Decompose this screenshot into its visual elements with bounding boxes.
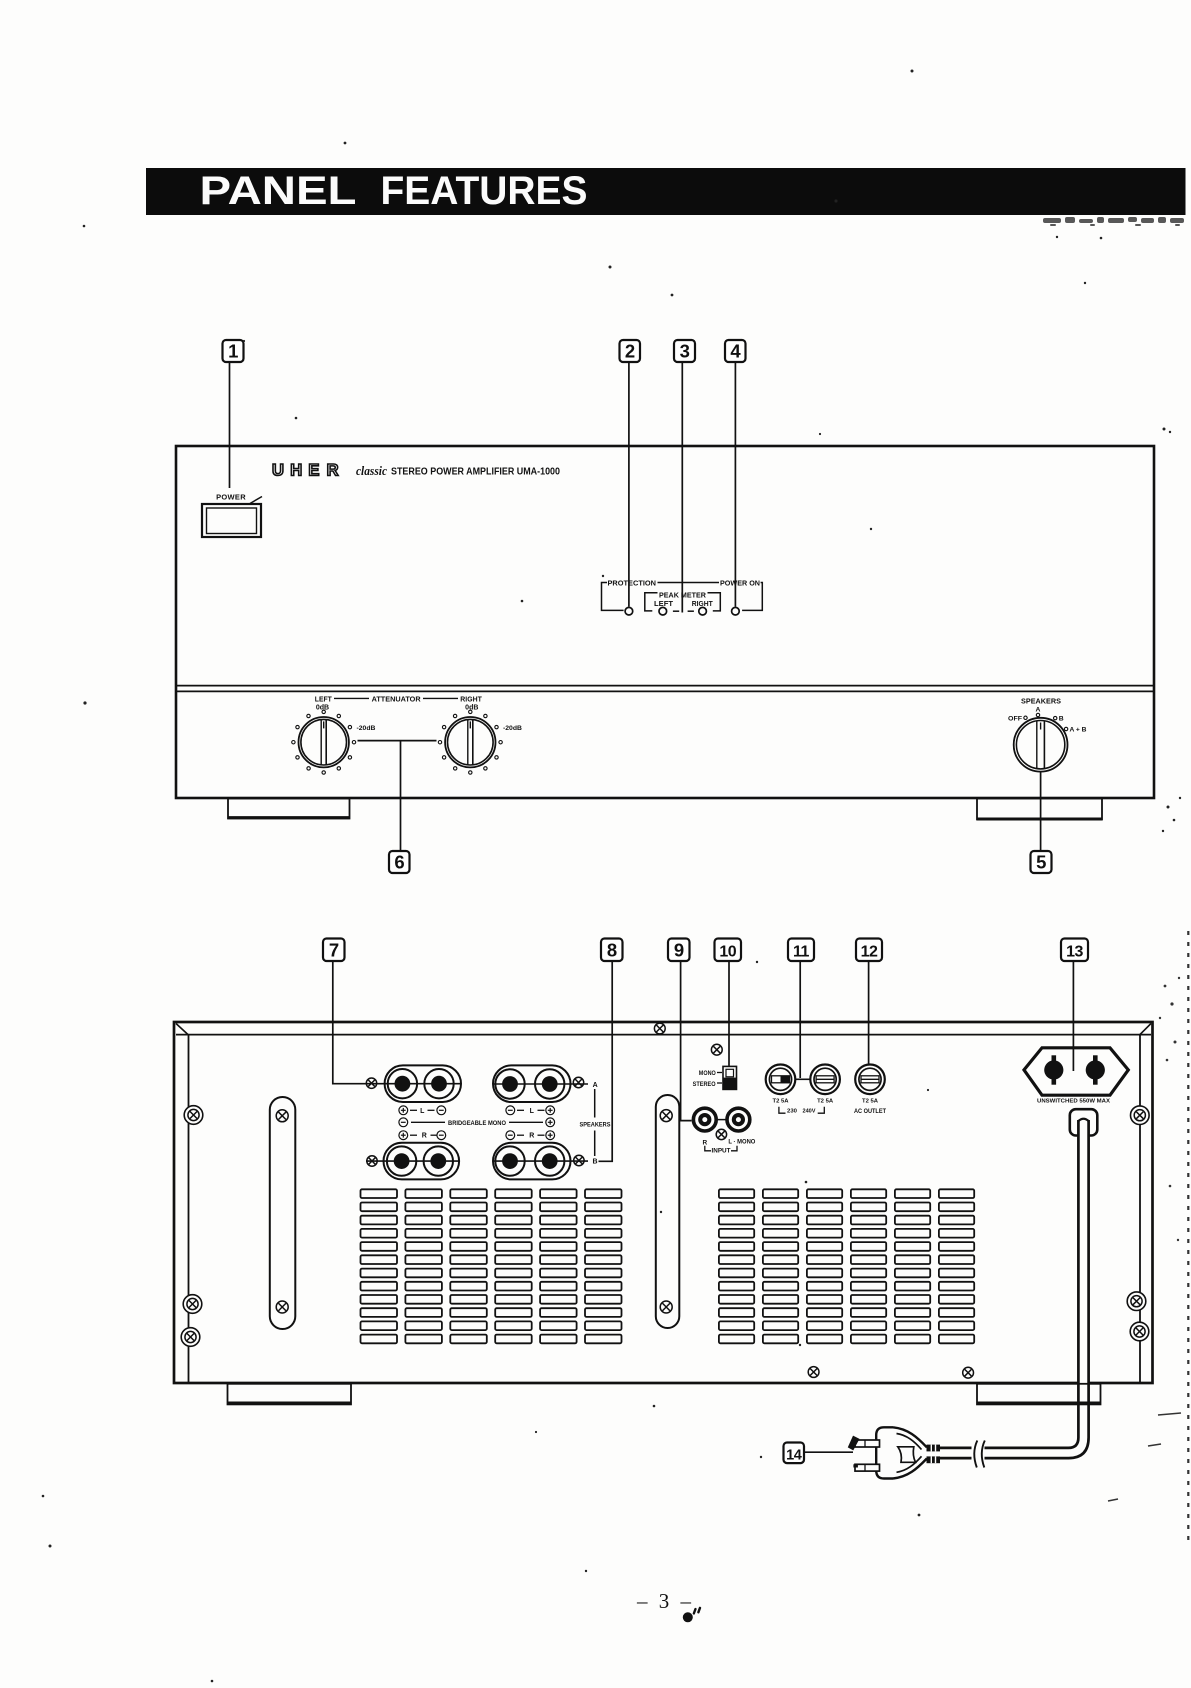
middle handle slot	[656, 1095, 680, 1328]
svg-text:L · MONO: L · MONO	[728, 1139, 755, 1146]
callout line 12	[868, 961, 870, 1064]
right vent grille (6x12 slots)	[719, 1189, 974, 1343]
terminal post B-R-	[495, 1146, 524, 1175]
svg-text:BRIDGEABLE MONO: BRIDGEABLE MONO	[448, 1121, 506, 1127]
left handle screw bottom	[276, 1301, 288, 1313]
terminal screw B left	[367, 1156, 377, 1166]
callout line 6	[400, 741, 402, 851]
terminal group A left stadium	[385, 1065, 461, 1102]
svg-text:UNSWITCHED 550W MAX: UNSWITCHED 550W MAX	[1037, 1099, 1110, 1105]
cord grommet	[1070, 1109, 1098, 1135]
callout line 13	[1072, 961, 1074, 1071]
callout line 14	[804, 1451, 853, 1453]
svg-text:R: R	[529, 1133, 534, 1140]
callout line 8	[599, 961, 613, 1161]
protection bracket	[602, 583, 624, 611]
svg-text:B: B	[592, 1159, 597, 1166]
svg-text:STEREO POWER AMPLIFIER UMA-100: STEREO POWER AMPLIFIER UMA-1000	[391, 467, 560, 478]
svg-text:7: 7	[329, 939, 339, 960]
attenuator knob RIGHT	[445, 717, 495, 767]
svg-text:LEFT: LEFT	[315, 694, 332, 703]
speakers bracket line lower	[594, 1131, 596, 1157]
rear bottom screw left	[808, 1367, 819, 1378]
front left foot	[228, 799, 350, 819]
svg-text:T2 5A: T2 5A	[862, 1099, 878, 1105]
protection LED	[625, 607, 633, 615]
terminal screw B right	[574, 1155, 584, 1165]
rear top-left corner bevel	[176, 1024, 189, 1036]
mono/stereo slide switch	[723, 1066, 737, 1089]
terminal screw A left	[366, 1078, 376, 1088]
power cord top cap	[1078, 1119, 1088, 1121]
RCA jack L	[727, 1108, 750, 1131]
fuse F1-F2 connector line	[796, 1078, 811, 1080]
svg-text:10: 10	[719, 943, 736, 960]
svg-text:H: H	[290, 462, 302, 480]
AC inlet receptacle	[1024, 1048, 1128, 1095]
callout line 11	[799, 961, 801, 1078]
callout box 9	[668, 939, 690, 962]
svg-text:3: 3	[680, 341, 690, 362]
callout box 13	[1061, 939, 1088, 962]
svg-text:FEATURES: FEATURES	[381, 169, 588, 213]
INPUT bracket	[705, 1146, 737, 1151]
callout line 2	[628, 362, 630, 607]
svg-text:SPEAKERS: SPEAKERS	[580, 1122, 611, 1128]
left flange screw lower	[181, 1328, 200, 1347]
rear panel outline	[174, 1022, 1153, 1383]
svg-text:A: A	[1036, 706, 1041, 713]
plug strain relief upper	[927, 1445, 941, 1452]
A+B dot	[1064, 727, 1067, 730]
svg-text:5: 5	[1036, 852, 1046, 873]
terminal post A-R-	[495, 1069, 524, 1098]
svg-text:A + B: A + B	[1070, 727, 1087, 734]
RCA jack R	[693, 1108, 716, 1131]
B dot	[1054, 716, 1057, 719]
title bar	[146, 168, 1186, 215]
right margin dash noise	[1108, 1413, 1181, 1501]
svg-text:8: 8	[607, 939, 617, 960]
svg-text:4: 4	[730, 341, 741, 362]
rear inner left line	[188, 1035, 190, 1382]
peak meter left LED	[659, 607, 667, 615]
svg-text:14: 14	[786, 1448, 802, 1464]
speakers selector knob	[1014, 718, 1068, 772]
right knob tick dots	[438, 710, 502, 774]
front panel divider lines	[176, 686, 1154, 692]
rear top-right corner bevel	[1139, 1024, 1151, 1036]
svg-text:B: B	[1059, 716, 1064, 723]
svg-text:230: 230	[787, 1109, 797, 1115]
svg-text:RIGHT: RIGHT	[460, 694, 482, 703]
terminal post A-R+	[535, 1069, 564, 1098]
callout line 1	[229, 362, 231, 488]
terminal post B-L-	[424, 1146, 453, 1175]
terminal B row midline	[366, 1160, 588, 1162]
svg-text:A: A	[593, 1082, 598, 1089]
right flange screw upper	[1131, 1106, 1150, 1125]
middle handle screw top	[660, 1110, 672, 1122]
callout line 9	[681, 961, 692, 1121]
svg-text:– 3 –: – 3 –	[636, 1589, 694, 1613]
rear inner top line	[176, 1034, 1151, 1036]
left handle slot	[270, 1097, 296, 1329]
LED row dashes	[673, 610, 694, 612]
callout box 11	[788, 939, 814, 962]
svg-text:13: 13	[1066, 943, 1083, 960]
front panel outline	[176, 446, 1154, 798]
svg-text:MONO: MONO	[699, 1070, 716, 1077]
polarity row 2 left	[399, 1131, 446, 1140]
UHER logo	[272, 462, 339, 480]
terminal post B-L+	[387, 1146, 416, 1175]
AC inlet pin right	[1086, 1055, 1105, 1084]
callout box 6	[389, 851, 410, 873]
svg-text:11: 11	[793, 943, 810, 960]
terminal screw A right	[573, 1077, 583, 1087]
svg-text:classic: classic	[356, 463, 387, 478]
callout box 7	[323, 939, 345, 962]
power-on bracket	[742, 583, 762, 611]
svg-text:1: 1	[228, 341, 238, 362]
OFF dot	[1024, 716, 1027, 719]
callout box 8	[601, 939, 623, 962]
rear top strip screw	[654, 1023, 665, 1034]
screw above mono switch	[711, 1044, 722, 1055]
callout box 3	[674, 340, 695, 362]
svg-text:PANEL: PANEL	[200, 169, 357, 213]
callout line 3	[681, 362, 683, 613]
peak meter right LED	[699, 607, 707, 615]
fuse F2 (240V)	[810, 1065, 840, 1095]
svg-text:-20dB: -20dB	[357, 725, 376, 732]
svg-text:STEREO: STEREO	[693, 1081, 716, 1088]
right flange screw mid	[1127, 1292, 1146, 1311]
svg-text:6: 6	[394, 852, 404, 873]
svg-text:PROTECTION: PROTECTION	[608, 580, 657, 587]
voltage selector bracket	[779, 1107, 824, 1114]
rear right foot	[977, 1384, 1101, 1405]
callout line 7	[333, 961, 366, 1084]
svg-text:240V: 240V	[803, 1109, 816, 1115]
speakers bracket line upper	[594, 1089, 596, 1118]
callout line 5	[1040, 771, 1042, 851]
screw between jacks	[716, 1129, 726, 1139]
svg-text:2: 2	[625, 341, 635, 362]
bridgeable mono row	[399, 1118, 555, 1127]
title text PANEL FEATURES	[200, 169, 588, 213]
jack connector line	[718, 1119, 726, 1121]
callout box 14	[784, 1443, 805, 1464]
svg-text:T2 5A: T2 5A	[773, 1099, 789, 1105]
rear inner right line	[1139, 1035, 1141, 1382]
svg-text:L: L	[420, 1108, 425, 1115]
callout line 4	[734, 362, 736, 607]
callout box 2	[620, 340, 641, 362]
svg-text:POWER ON: POWER ON	[720, 580, 760, 587]
svg-text:L: L	[530, 1108, 535, 1115]
middle handle screw bottom	[660, 1301, 672, 1313]
svg-text:R: R	[702, 1140, 707, 1147]
power button	[202, 497, 262, 538]
terminal post B-R+	[535, 1146, 564, 1175]
rear left foot	[228, 1384, 352, 1405]
STEREO dash	[717, 1082, 722, 1084]
knob connector line	[358, 740, 437, 742]
svg-text:R: R	[422, 1133, 427, 1140]
svg-text:SPEAKERS: SPEAKERS	[1021, 698, 1061, 705]
polarity row 1 right	[506, 1106, 555, 1115]
right margin noise column	[1187, 931, 1189, 1546]
plug inner curves	[897, 1434, 922, 1473]
terminal A row midline	[366, 1083, 588, 1085]
right margin noise cluster	[1159, 977, 1180, 1241]
smudge strip below title bar right end	[1043, 217, 1184, 226]
svg-text:INPUT: INPUT	[712, 1148, 731, 1154]
power cord outline inner	[940, 1120, 1079, 1448]
plug pin lower	[853, 1464, 879, 1471]
attenuator knob LEFT	[299, 717, 349, 767]
callout line 10	[728, 961, 730, 1066]
svg-text:ATTENUATOR: ATTENUATOR	[372, 694, 422, 703]
fuse F1 (230V)	[766, 1065, 796, 1095]
power cord white core	[940, 1120, 1089, 1458]
callout box 4	[725, 340, 746, 362]
svg-text:R: R	[327, 462, 339, 480]
polarity row 2 right	[506, 1131, 555, 1140]
label connector line	[658, 582, 720, 584]
attenuator label dashes	[334, 697, 458, 699]
callout box 12	[856, 939, 882, 962]
plug pin upper	[847, 1435, 879, 1451]
svg-text:AC OUTLET: AC OUTLET	[854, 1109, 886, 1115]
MONO dash	[717, 1072, 722, 1074]
cord break gap	[972, 1443, 985, 1463]
svg-text:E: E	[308, 462, 319, 480]
plug inner recess	[898, 1447, 916, 1463]
rear bottom screw right	[963, 1367, 974, 1378]
svg-text:9: 9	[674, 939, 684, 960]
mains plug body	[876, 1427, 927, 1478]
terminal group B right stadium	[493, 1143, 571, 1180]
power cord outline outer	[940, 1120, 1089, 1458]
left handle screw top	[276, 1110, 288, 1122]
left flange screw mid	[183, 1295, 202, 1314]
svg-text:-20dB: -20dB	[503, 725, 522, 732]
callout box 1	[223, 340, 244, 362]
svg-text:POWER: POWER	[216, 493, 246, 502]
peak meter bracket right	[708, 593, 721, 611]
front right foot	[977, 799, 1102, 820]
svg-text:OFF: OFF	[1008, 715, 1022, 722]
left knob tick dots	[292, 710, 356, 774]
power on LED	[732, 607, 740, 615]
callout box 5	[1031, 851, 1052, 873]
speaker A dot	[1036, 713, 1039, 716]
polarity row 1 left	[399, 1106, 446, 1115]
left flange screw upper	[184, 1106, 203, 1125]
peak meter bracket left	[645, 593, 658, 611]
callout box 10	[715, 939, 742, 962]
AC outlet fuse F3	[855, 1065, 885, 1095]
plug strain relief lower	[927, 1456, 941, 1463]
AC inlet pin left	[1044, 1055, 1063, 1084]
right flange screw lower	[1130, 1322, 1149, 1341]
terminal post A-L-	[424, 1069, 453, 1098]
ink blob	[683, 1606, 702, 1622]
cord break symbol	[974, 1441, 985, 1468]
terminal group B left stadium	[384, 1143, 460, 1180]
left vent grille (6x12 slots)	[361, 1189, 622, 1343]
terminal post A-L+	[388, 1069, 417, 1098]
svg-text:12: 12	[861, 943, 878, 960]
svg-text:U: U	[272, 462, 284, 480]
terminal group A right stadium	[493, 1065, 571, 1102]
svg-text:T2 5A: T2 5A	[817, 1099, 833, 1105]
